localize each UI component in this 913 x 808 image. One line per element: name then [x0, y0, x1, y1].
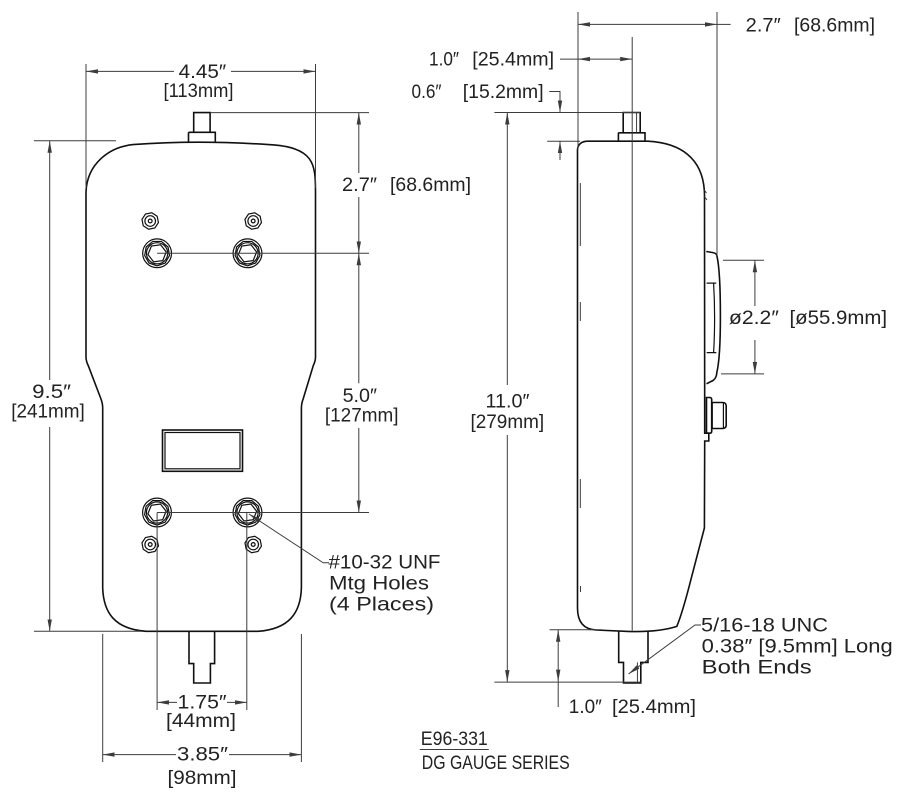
- svg-text:1.0″: 1.0″: [429, 50, 459, 71]
- svg-text:1.0″: 1.0″: [569, 697, 602, 718]
- svg-text:4.45″: 4.45″: [179, 62, 227, 83]
- svg-text:0.38″ [9.5mm] Long: 0.38″ [9.5mm] Long: [702, 637, 893, 658]
- svg-text:[279mm]: [279mm]: [471, 412, 545, 433]
- svg-text:Mtg Holes: Mtg Holes: [329, 574, 429, 595]
- svg-text:E96-331: E96-331: [421, 729, 488, 750]
- svg-text:[25.4mm]: [25.4mm]: [472, 50, 554, 71]
- svg-text:5.0″: 5.0″: [343, 386, 378, 407]
- svg-text:[25.4mm]: [25.4mm]: [612, 697, 696, 718]
- svg-text:[241mm]: [241mm]: [11, 401, 85, 422]
- svg-text:#10-32 UNF: #10-32 UNF: [329, 553, 441, 574]
- svg-text:[127mm]: [127mm]: [325, 406, 399, 427]
- svg-text:2.7″: 2.7″: [342, 175, 377, 196]
- svg-text:[113mm]: [113mm]: [164, 81, 234, 102]
- svg-text:[44mm]: [44mm]: [166, 711, 236, 732]
- svg-text:[98mm]: [98mm]: [168, 768, 237, 789]
- svg-text:[68.6mm]: [68.6mm]: [390, 175, 471, 196]
- svg-text:9.5″: 9.5″: [32, 382, 71, 403]
- svg-text:2.7″: 2.7″: [746, 15, 781, 36]
- svg-text:[68.6mm]: [68.6mm]: [794, 15, 875, 36]
- svg-text:[15.2mm]: [15.2mm]: [463, 82, 544, 103]
- svg-text:0.6″: 0.6″: [412, 82, 442, 103]
- svg-text:Both Ends: Both Ends: [702, 657, 812, 678]
- svg-text:11.0″: 11.0″: [486, 392, 530, 413]
- svg-text:(4 Places): (4 Places): [329, 595, 434, 616]
- svg-text:DG GAUGE SERIES: DG GAUGE SERIES: [422, 753, 570, 774]
- svg-text:[ø55.9mm]: [ø55.9mm]: [790, 308, 888, 329]
- svg-text:ø2.2″: ø2.2″: [729, 308, 779, 329]
- svg-text:5/16-18 UNC: 5/16-18 UNC: [701, 615, 828, 636]
- svg-text:3.85″: 3.85″: [177, 745, 228, 766]
